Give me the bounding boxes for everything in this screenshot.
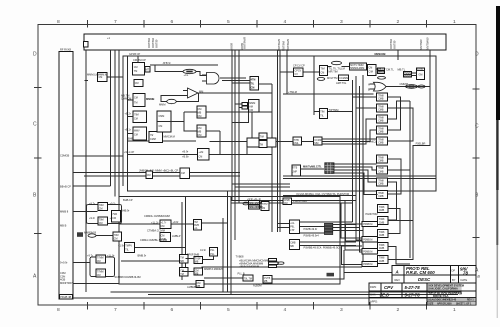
wire U38-U39 (300, 168, 324, 170)
wire opamp feedback a (176, 93, 198, 102)
svg-text:+9.9r: +9.9r (173, 220, 179, 224)
wire bracket upper stack b (387, 108, 413, 141)
wire y187 (235, 186, 290, 188)
svg-text:5: 5 (227, 307, 230, 313)
svg-text:CM: CM (134, 134, 138, 137)
svg-text:TM: TM (180, 273, 183, 276)
resistor R1 delay (183, 69, 196, 77)
wire bottom pair vertical x227 (227, 191, 229, 292)
svg-text:CITN: CITN (417, 68, 423, 71)
svg-text:2: 2 (397, 307, 400, 313)
wire mid horizontal y154.6 left (128, 154, 198, 156)
svg-text:1: 1 (453, 19, 456, 25)
block E1 (151, 220, 179, 229)
wire x314 to U17 (314, 111, 320, 113)
wire stub U2 (128, 99, 134, 101)
svg-text:+TMLM: +TMLM (288, 90, 297, 94)
wire y247.8 POMBB (299, 244, 356, 246)
wire bus to U34 b (235, 103, 242, 105)
gate G1 AND (202, 73, 226, 85)
right stack upper: latch U20 (377, 93, 388, 101)
wire center bus pair left (277, 50, 279, 232)
svg-text:TVB08: TVB08 (236, 255, 244, 259)
svg-text:6: 6 (171, 19, 174, 25)
block U6 dual latch (157, 111, 171, 132)
svg-text:+1L.2r: +1L.2r (151, 220, 159, 224)
wire gate output y86.5 (386, 86, 430, 88)
svg-text:+BMM.MM0MMB: +BMM.MM0MMB (239, 265, 259, 269)
wire riser x363 (363, 75, 364, 262)
wire bracket mid stack b (387, 169, 410, 171)
wire riser x341 (341, 203, 362, 238)
svg-text:8: 8 (57, 19, 60, 25)
title block revision table (392, 266, 476, 283)
wire E4 to E5b (203, 256, 214, 260)
svg-text:C0MGB: C0MGB (60, 154, 69, 158)
svg-text:CM: CM (198, 115, 202, 118)
wire F4 out (299, 221, 352, 223)
svg-text:7: 7 (114, 19, 117, 25)
svg-text:MMV: MMV (134, 130, 140, 133)
svg-text:AMT.T0L: AMT.T0L (336, 81, 347, 85)
svg-text:JE.D: JE.D (380, 292, 391, 297)
svg-text:MMLMMMM: MMLMMMM (249, 206, 262, 209)
right stack mid: latch U26 (377, 166, 388, 174)
svg-text:123-45: 123-45 (449, 299, 457, 302)
svg-text:MMM0LM0M: MMM0LM0M (350, 67, 364, 70)
block U41 (113, 232, 122, 241)
block U34 column mid (242, 100, 259, 112)
block U4 (125, 127, 175, 143)
wire y65 JP B 9r (150, 64, 218, 66)
block E9 (253, 276, 272, 288)
bus bar pin box J2 (84, 41, 89, 47)
svg-text:TIM: TIM (320, 111, 324, 114)
wire opamp out (199, 92, 273, 94)
right stack lower: latch U31 (377, 230, 388, 238)
block E3 (193, 219, 201, 230)
block U42 (118, 243, 146, 258)
svg-text:MB.TL: MB.TL (398, 68, 406, 72)
svg-text:TM: TM (134, 70, 137, 73)
svg-text:D: D (33, 52, 37, 58)
svg-text:DESC: DESC (418, 277, 431, 282)
zone tick bottom 4/3 (313, 302, 315, 310)
zone tick bottom 7/6 (143, 302, 145, 310)
svg-text:CM: CM (161, 225, 165, 228)
wire bus drop x239 (238, 50, 240, 203)
wire long bottom y292 (111, 284, 462, 292)
main logic enclosure box top edge (128, 56, 437, 191)
right stack upper: latch U24 (377, 137, 388, 145)
svg-text:MMTBAM9: MMTBAM9 (427, 37, 430, 50)
wire gate to U18 b (222, 80, 250, 82)
svg-text:PH0NT0M: PH0NT0M (366, 212, 378, 216)
block U15 crystal (398, 68, 412, 78)
wire y154 to U35 (246, 147, 248, 155)
wire F5 to risers c (333, 230, 363, 232)
block U6c latch (197, 125, 206, 137)
svg-text:BMB.9r: BMB.9r (138, 254, 147, 258)
wire bracket lower stack a (388, 209, 400, 234)
zone tick top 7/6 (143, 20, 145, 28)
svg-text:MMTB9: MMTB9 (394, 40, 397, 49)
block U39 hatched coil (303, 163, 334, 174)
svg-text:CM: CM (198, 134, 202, 137)
svg-text:MMMM: MMMM (404, 75, 412, 78)
svg-text:P0MBB.49.9C4, P0MBB.49.9C4: P0MBB.49.9C4, P0MBB.49.9C4 (304, 245, 342, 249)
block U8 (180, 168, 190, 179)
svg-text:C: C (475, 124, 479, 130)
svg-text:+9.7r: +9.7r (110, 201, 116, 205)
wire F5 to risers a (333, 224, 356, 226)
svg-text:MM: MM (314, 142, 318, 145)
block E7 (187, 281, 204, 290)
block U9 (293, 64, 305, 77)
svg-text:5-27-78: 5-27-78 (405, 285, 421, 290)
svg-text:4: 4 (284, 307, 287, 313)
op-amp A1 (183, 88, 203, 98)
svg-text:MMTBA9: MMTBA9 (283, 40, 286, 51)
bus tick on x86 (85, 80, 89, 82)
svg-text:1: 1 (453, 307, 456, 313)
wire R3 to U11 (342, 66, 350, 68)
wire bracket mid stack a (387, 159, 401, 194)
svg-text:3: 3 (340, 307, 343, 313)
svg-text:+CL: +CL (290, 222, 295, 225)
svg-text:CM: CM (134, 97, 138, 100)
right stack upper: latch U22 (377, 115, 388, 123)
block dark MMB M (327, 273, 335, 277)
svg-text:MB: MB (197, 285, 201, 288)
svg-text:+LM: +LM (199, 151, 204, 154)
svg-text:77PV: 77PV (262, 203, 268, 206)
wire stub U3 (128, 116, 134, 118)
wire y94 (283, 93, 374, 95)
block U40 (112, 211, 121, 223)
svg-text:DRIVE FSA: DRIVE FSA (433, 294, 449, 298)
block U13 pin labels (377, 68, 394, 75)
svg-text:CTMBA.CCMM: CTMBA.CCMM (147, 229, 165, 233)
svg-text:P0MB.49.9r: P0MB.49.9r (304, 227, 318, 231)
svg-text:MMMB: MMMB (146, 97, 154, 101)
net label row1 with end box (239, 258, 277, 262)
svg-text:DATE: DATE (461, 278, 468, 282)
wire U39 to stack mid a (333, 163, 377, 165)
svg-text:78: 78 (463, 270, 468, 275)
resistor R2 (159, 99, 176, 106)
svg-text:LMBMM: LMBMM (187, 285, 197, 289)
wire bottom pair vertical x223 (222, 218, 224, 292)
block F3 decoder labels (243, 197, 263, 209)
wire long horizontal y176 (84, 175, 240, 177)
svg-text:LMP: LMP (292, 170, 297, 173)
svg-text:GP1B CP: GP1B CP (129, 52, 141, 56)
svg-text:CM: CM (112, 217, 116, 220)
svg-text:CMMM: CMMM (400, 82, 408, 86)
wire y71.8 b (303, 71, 320, 73)
block U8b (146, 171, 153, 179)
svg-text:MR.TIM: MR.TIM (329, 70, 338, 74)
wire right trunk x410 (409, 101, 411, 258)
zone tick bottom 3/2 (369, 302, 371, 310)
wire U6c out (206, 130, 220, 132)
svg-text:MB: MB (290, 245, 294, 248)
svg-text:+B.1r: +B.1r (125, 128, 131, 132)
wire F5 to risers b (333, 227, 360, 229)
wire opamp feedback b (161, 96, 188, 102)
wire J1 stub y262 (73, 262, 90, 264)
wire bracket lower stack b (388, 221, 413, 260)
wire U11 to U12 (367, 68, 368, 70)
svg-text:MMCM.M: MMCM.M (164, 135, 175, 139)
svg-text:A: A (395, 270, 399, 275)
svg-text:CHK: CHK (370, 293, 376, 297)
wire bracket mid stack c (387, 182, 396, 220)
svg-text:A: A (368, 83, 370, 87)
svg-text:79L.TM: 79L.TM (244, 278, 252, 281)
wire gate to U18 c (232, 82, 250, 84)
block U10 (320, 66, 345, 76)
svg-text:CM: CM (99, 222, 103, 225)
wire E7 row (186, 283, 196, 285)
svg-text:B: B (368, 88, 370, 92)
svg-text:PRHB 4B: PRHB 4B (60, 295, 71, 299)
block U6b latch (197, 106, 206, 118)
zone tick right D/C (473, 88, 480, 90)
block U2 (121, 94, 154, 107)
right stack lower: latch U33 (377, 255, 388, 263)
wire U6 fan (171, 121, 184, 123)
block U5 (87, 73, 107, 82)
block FF2 loop lower (87, 254, 115, 278)
zone tick right B/A (473, 237, 480, 239)
wire drop x398 (397, 50, 399, 60)
wire bus drop x86 (85, 50, 87, 292)
svg-text:TIM: TIM (260, 136, 264, 139)
svg-text:MMCMM0M: MMCMM0M (249, 202, 262, 205)
wire mid horizontal y154.6 (210, 154, 273, 156)
wire U18 to bus (258, 83, 272, 85)
svg-text:CMMA.CMMBL.MCMM: CMMA.CMMBL.MCMM (140, 238, 167, 242)
zone tick top 5/4 (256, 20, 258, 28)
block U1b small (134, 80, 143, 87)
J1 pin label PRHB 4B (60, 294, 73, 299)
svg-text:TM: TM (260, 144, 263, 147)
svg-text:CCMMM: CCMMM (339, 77, 348, 80)
svg-text:P9L: P9L (290, 226, 295, 229)
svg-text:CM: CM (99, 208, 103, 211)
svg-text:BHB.9r: BHB.9r (121, 209, 129, 213)
block E5b (194, 256, 203, 263)
svg-text:P1L: P1L (210, 249, 215, 252)
svg-text:+9+1.CP: +9+1.CP (124, 150, 135, 154)
zone tick left B/A (34, 233, 42, 235)
net label row3 with end box (239, 265, 277, 269)
scanner black edge right (496, 6, 500, 120)
svg-text:+9.7r: +9.7r (87, 254, 93, 258)
wire U35-U36 (276, 141, 293, 143)
right stack upper: latch U21 (377, 104, 388, 112)
lower enclosure box (119, 197, 340, 285)
wire FF1 to E1 (119, 223, 160, 225)
wire bus drop x232 (231, 50, 233, 201)
wire U39 to stack mid d (333, 173, 378, 195)
block U14 (317, 75, 349, 85)
wire oval to gate input (196, 72, 207, 76)
right stack lower: latch U32 (377, 243, 388, 251)
wire J1 stub y283 (73, 283, 119, 285)
svg-text:P.R.E. CM 600: P.R.E. CM 600 (406, 270, 435, 275)
svg-text:TIM: TIM (321, 68, 325, 71)
block U38 (292, 165, 300, 176)
wire J1 stub y211.3 (73, 210, 98, 212)
wire riser x356 (356, 76, 362, 240)
right stack mid: latch U28 (377, 191, 388, 199)
svg-text:CM: CM (97, 260, 101, 263)
svg-text:CM: CM (135, 82, 139, 85)
wire P row enclosure 1 (346, 224, 363, 241)
wire fan U37 to stack c (322, 119, 376, 144)
svg-text:CM: CM (134, 66, 138, 69)
svg-text:MMM: MMM (159, 103, 165, 107)
right stack mid: latch U25 (377, 155, 388, 163)
block U17 (320, 108, 339, 119)
svg-text:DWN: DWN (370, 285, 376, 289)
svg-text:MW.TuMB.CITL: MW.TuMB.CITL (303, 165, 322, 169)
zone tick bottom 2/1 (426, 302, 428, 310)
wire F6 out (299, 241, 356, 243)
wire U17 out (327, 111, 352, 113)
wire U42 out (135, 247, 186, 249)
svg-text:MMTBAM9: MMTBAM9 (278, 38, 281, 51)
block U11 ROM (350, 63, 367, 70)
zone tick top 3/2 (369, 20, 371, 28)
zone tick top 2/1 (426, 20, 428, 28)
svg-text:SIZE: SIZE (428, 303, 434, 305)
svg-text:6: 6 (171, 307, 174, 313)
wire U5 out (107, 76, 123, 78)
block E8 (238, 272, 254, 282)
svg-text:4TM: 4TM (251, 78, 256, 81)
svg-text:5: 5 (227, 19, 230, 25)
svg-text:CM: CM (147, 174, 151, 177)
wire U6b out (206, 111, 272, 113)
wire J1 stub y186.2 (73, 185, 111, 187)
wire FF2 to E5 (121, 260, 180, 262)
wire bus drop x110.5 (110, 50, 112, 186)
block U12 (368, 64, 377, 75)
svg-text:JP.B 9r: JP.B 9r (163, 61, 171, 65)
svg-text:MMTBA9: MMTBA9 (420, 39, 423, 50)
wire long horizontal y172.5 (73, 172, 240, 174)
wire U38 out pair b (283, 178, 436, 180)
svg-text:CV: CV (295, 73, 299, 76)
svg-text:F0ELBR: F0ELBR (416, 142, 426, 146)
block U37 (314, 137, 323, 145)
wire bus to F4 b (278, 227, 290, 229)
svg-text:CM: CM (321, 72, 325, 75)
block U35 bus connector (247, 133, 276, 148)
svg-text:+B.2r: +B.2r (125, 112, 131, 116)
svg-text:LB.CP: LB.CP (378, 71, 385, 74)
block P3 POMB label (362, 249, 378, 254)
svg-text:41.9r: 41.9r (200, 248, 206, 252)
svg-text:TP0P.9MB: TP0P.9MB (187, 252, 199, 256)
svg-text:9CMM8.9CMM8.9L0M: 9CMM8.9CMM8.9L0M (115, 275, 141, 279)
svg-text:3: 3 (340, 19, 343, 25)
wire y184 (232, 183, 290, 185)
svg-text:79M: 79M (134, 114, 139, 117)
svg-text:SAN JOSE, CALIFORNIA: SAN JOSE, CALIFORNIA (428, 288, 458, 291)
svg-text:CMM0L.CM0MMCMM: CMM0L.CM0MMCMM (144, 214, 170, 218)
svg-text:+1.9r: +1.9r (118, 244, 124, 248)
svg-text:TIL: TIL (251, 82, 255, 85)
wire fan U37 to stack a (322, 139, 376, 141)
svg-text:5-27-78: 5-27-78 (405, 292, 421, 297)
svg-text:CML: CML (294, 142, 300, 145)
svg-text:TIPTMM: TIPTMM (329, 108, 339, 112)
wire riser x359.5 (360, 86, 363, 252)
svg-text:TMPV: TMPV (125, 245, 132, 248)
wire U10 to R3 (328, 66, 332, 68)
svg-text:MT: MT (146, 69, 150, 72)
svg-text:2: 2 (397, 19, 400, 25)
svg-text:CM: CM (249, 109, 253, 112)
block U36 (293, 137, 302, 145)
svg-text:SHEET 1 OF 1: SHEET 1 OF 1 (456, 303, 472, 305)
svg-text:MMTBAM9: MMTBAM9 (287, 38, 290, 51)
svg-text:CIM: CIM (369, 71, 373, 74)
wire bracket upper stack c (387, 101, 410, 119)
svg-text:REV 1: REV 1 (467, 300, 474, 302)
wire E6 to E8 (204, 277, 243, 279)
wire E5 row (186, 258, 195, 260)
svg-text:CM: CM (97, 274, 101, 277)
wire drop x314 (313, 56, 315, 115)
zone tick bottom 5/4 (256, 302, 258, 310)
wire long bottom y297.8 (73, 297, 455, 299)
wire riser x352 (352, 80, 354, 222)
block U1 sequencer (133, 58, 151, 75)
svg-text:CPV: CPV (384, 285, 394, 290)
block F4 (289, 220, 299, 233)
svg-text:TM: TM (134, 102, 137, 105)
svg-text:MMM.LMMMM.M: MMM.LMMMM.M (87, 73, 107, 77)
resistor R5 (400, 82, 426, 88)
net label row2 with end box (239, 262, 284, 266)
wire bus drop x235 (234, 50, 236, 240)
svg-text:MM: MM (199, 90, 203, 94)
svg-text:+9.7r: +9.7r (89, 201, 95, 205)
svg-text:+CL: +CL (184, 73, 189, 77)
wire y228.5 POMB (299, 226, 324, 228)
wire fan to stack e (356, 107, 377, 109)
svg-text:CMM: CMM (150, 138, 156, 141)
svg-text:+9.2r: +9.2r (89, 216, 95, 220)
block E6b (194, 268, 203, 275)
wire vertical x185.5 (185, 197, 187, 277)
svg-text:APPD:: APPD: (370, 300, 378, 304)
svg-text:MMB0M.B: MMB0M.B (84, 231, 96, 235)
block P4 POMB label (362, 261, 378, 266)
svg-text:LTP: LTP (290, 229, 295, 232)
zone tick top 6/5 (200, 20, 202, 28)
right stack upper: latch U23 (377, 126, 388, 134)
svg-text:MMB 8: MMB 8 (60, 210, 69, 214)
svg-text:CM: CM (284, 202, 288, 205)
svg-text:MB: MB (264, 280, 268, 283)
